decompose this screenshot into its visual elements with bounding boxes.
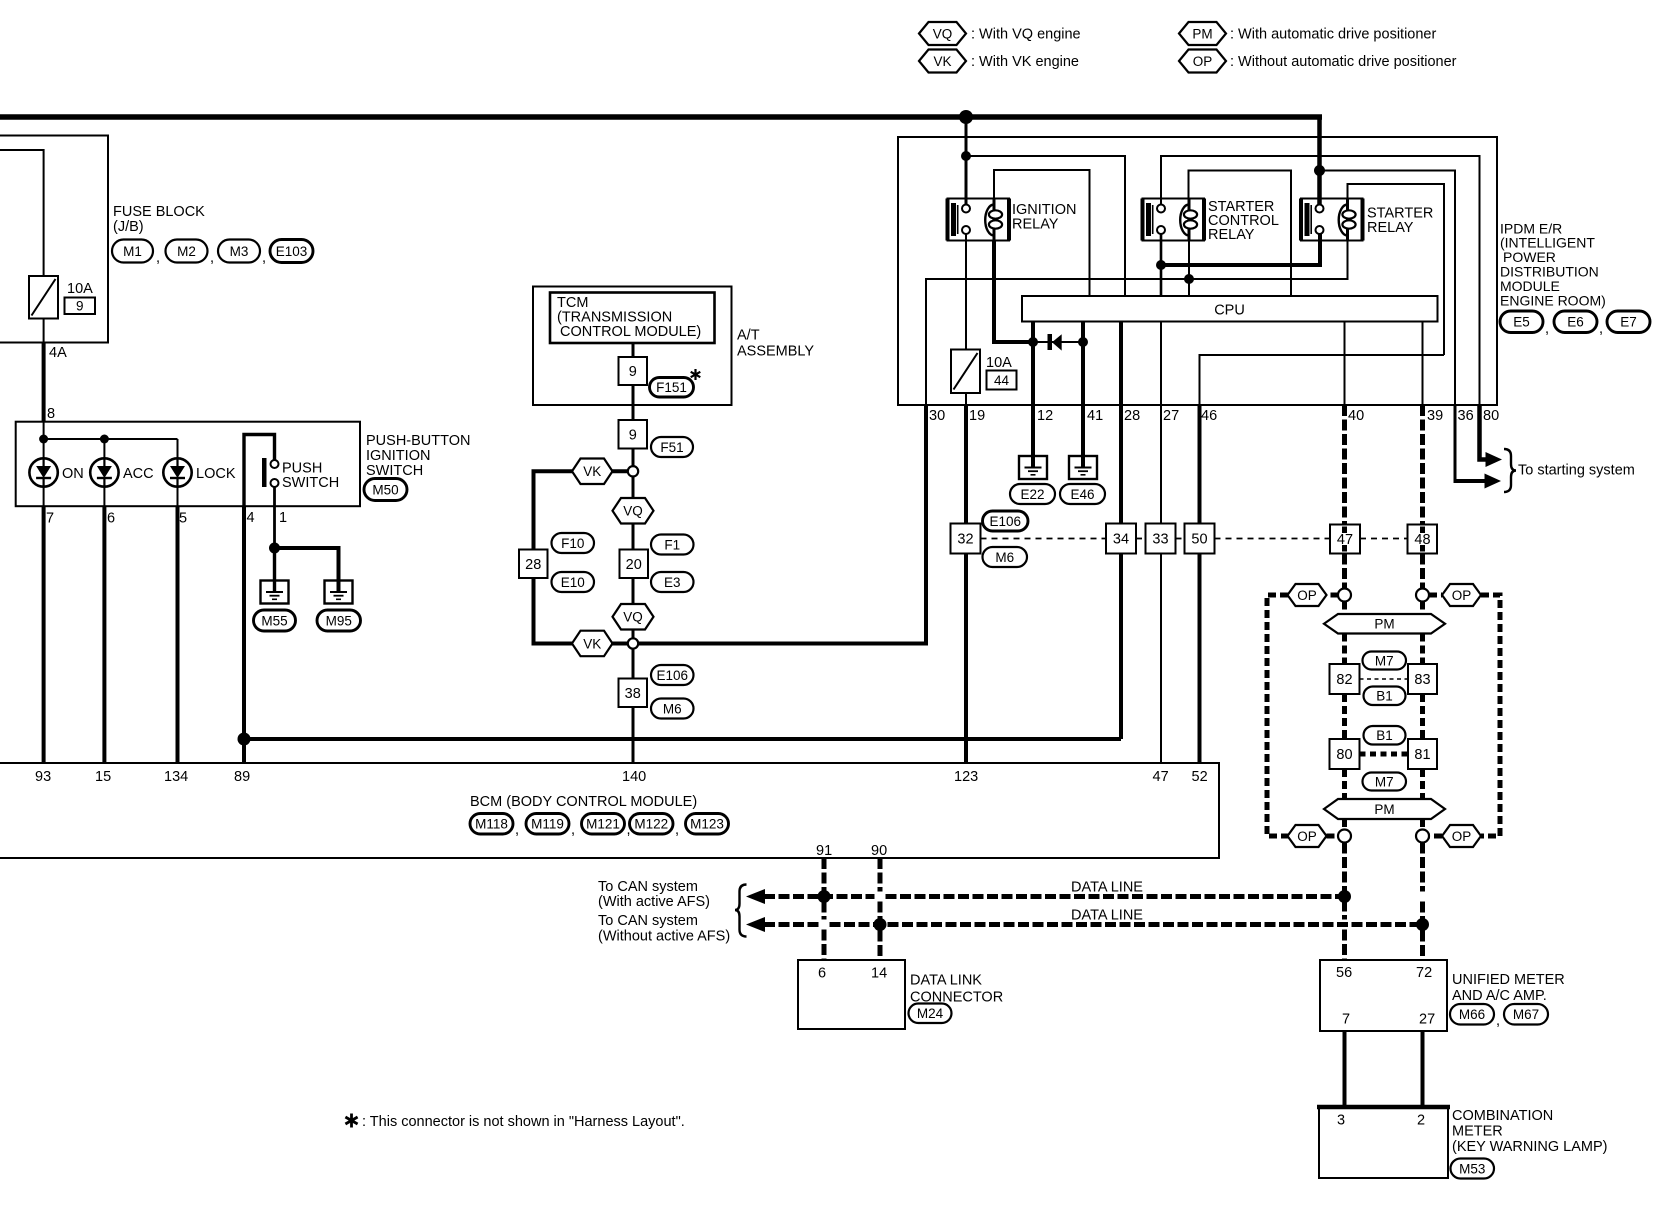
wire fuse to block edge — [43, 319, 45, 343]
svg-text:M122: M122 — [634, 817, 668, 832]
flag OP bottom-left — [1288, 825, 1327, 847]
wire pin7 to BCM 93 — [42, 506, 46, 763]
svg-text:: With VK engine: : With VK engine — [971, 54, 1079, 70]
svg-text:,: , — [571, 822, 575, 838]
svg-text:52: 52 — [1192, 769, 1208, 785]
unified meter box — [1320, 960, 1447, 1031]
svg-text:1: 1 — [279, 510, 287, 526]
flag VQ lower — [613, 604, 654, 630]
wire to VK junction — [632, 449, 635, 467]
connector F1 — [651, 535, 694, 555]
svg-text:15: 15 — [95, 769, 111, 785]
CAN wire BCM 91 down — [822, 858, 827, 920]
connector M121 — [582, 814, 625, 835]
pin box 81 — [1408, 739, 1437, 769]
svg-text:(J/B): (J/B) — [113, 219, 144, 235]
svg-text:82: 82 — [1336, 672, 1352, 688]
wire pin 41 to ground E46 — [1081, 405, 1085, 468]
legend flag OP — [1179, 50, 1226, 73]
svg-text:4A: 4A — [49, 345, 67, 361]
svg-text:44: 44 — [994, 373, 1010, 388]
CAN wire box48 to OP junction — [1420, 554, 1425, 589]
wire junction down to pin 38 — [632, 649, 635, 679]
wire bus to ignition relay contact — [965, 117, 968, 206]
svg-text:SWITCH: SWITCH — [366, 463, 423, 479]
svg-text:FUSE BLOCK: FUSE BLOCK — [113, 204, 205, 220]
ignition relay frame — [994, 170, 1090, 296]
CAN wire box47 to OP junction — [1342, 554, 1347, 589]
svg-text:OP: OP — [1297, 829, 1317, 844]
svg-text:PM: PM — [1374, 617, 1394, 632]
connector M55 — [254, 610, 296, 631]
svg-text:89: 89 — [234, 769, 250, 785]
svg-text:M6: M6 — [995, 550, 1014, 565]
connector M66 — [1450, 1004, 1494, 1025]
inline dashed link 47-48 — [1360, 538, 1407, 540]
connector M53 — [1451, 1159, 1495, 1179]
svg-text:M7: M7 — [1375, 774, 1394, 789]
inline dashed link 32-34 — [981, 538, 1107, 540]
svg-text:80: 80 — [1336, 747, 1352, 763]
asterisk on F151 — [694, 369, 696, 380]
svg-text:8: 8 — [47, 406, 55, 422]
svg-text:(Without active AFS): (Without active AFS) — [598, 929, 730, 945]
connector E5 — [1500, 311, 1543, 333]
svg-text:ENGINE ROOM): ENGINE ROOM) — [1500, 293, 1606, 309]
junction circle OP top-left — [1338, 589, 1351, 602]
CPU box — [1022, 296, 1438, 322]
flag PM top — [1324, 614, 1445, 634]
svg-text:IGNITION: IGNITION — [366, 448, 430, 464]
wire starter control coil to CPU — [1188, 235, 1190, 297]
connector E106 — [983, 511, 1029, 531]
CAN wire BCM 90 down — [878, 858, 883, 892]
svg-text:E106: E106 — [656, 668, 688, 683]
data link connector box — [798, 960, 905, 1029]
svg-text:28: 28 — [525, 557, 541, 573]
svg-text:M53: M53 — [1459, 1161, 1485, 1176]
wire starter control contact to pin 80 line — [1161, 156, 1480, 405]
svg-text:M24: M24 — [917, 1006, 944, 1021]
wire 4A fuse block to switch — [42, 343, 46, 422]
wire UM 7 to meter 3 — [1343, 1031, 1347, 1107]
flag OP top-right — [1442, 584, 1481, 606]
svg-text:RELAY: RELAY — [1208, 227, 1255, 243]
wire into LOCK lamp — [177, 439, 179, 458]
fuse block (J/B) box — [0, 136, 108, 343]
svg-text:56: 56 — [1336, 965, 1352, 981]
svg-text:E5: E5 — [1513, 315, 1530, 330]
svg-text:BCM (BODY CONTROL MODULE): BCM (BODY CONTROL MODULE) — [470, 794, 697, 810]
CAN left to meter — [1342, 843, 1347, 920]
svg-text:E103: E103 — [276, 244, 308, 259]
inline connector box 32 — [951, 524, 981, 554]
wire to ground M95 — [275, 548, 339, 592]
svg-text:CPU: CPU — [1214, 303, 1245, 319]
svg-text:M66: M66 — [1459, 1007, 1485, 1022]
connector M50 — [364, 479, 407, 501]
svg-text:M1: M1 — [123, 244, 142, 259]
arrow to starting system (36) — [1485, 474, 1502, 489]
svg-text:7: 7 — [1342, 1012, 1350, 1028]
svg-text:M50: M50 — [372, 482, 398, 497]
inline dashed link 50-47 — [1215, 538, 1331, 540]
svg-text:F1: F1 — [664, 537, 680, 552]
svg-text:M123: M123 — [690, 817, 724, 832]
svg-text:M55: M55 — [261, 613, 287, 628]
footnote asterisk — [350, 1114, 353, 1128]
connector M3 — [218, 240, 260, 263]
svg-text:134: 134 — [164, 769, 188, 785]
OP bypass right — [1429, 593, 1442, 598]
svg-text:DATA LINE: DATA LINE — [1071, 880, 1143, 896]
svg-text:F51: F51 — [660, 440, 683, 455]
svg-text:VK: VK — [583, 636, 601, 651]
wire push switch to pin 1 — [273, 487, 276, 548]
wire pin 19 to BCM 123 — [964, 405, 968, 763]
arrow CAN line 2 — [746, 917, 765, 932]
CAN wire pin 39 down — [1420, 405, 1425, 525]
svg-text:4: 4 — [247, 510, 255, 526]
connector M6 (TCM) — [651, 699, 694, 719]
ground M55 — [261, 581, 289, 604]
flag VK upper — [572, 459, 613, 485]
svg-text:19: 19 — [969, 408, 985, 424]
svg-text:UNIFIED METER: UNIFIED METER — [1452, 972, 1565, 988]
svg-text:COMBINATION: COMBINATION — [1452, 1108, 1553, 1124]
inline connector box 33 — [1146, 524, 1176, 554]
svg-text:B1: B1 — [1376, 689, 1393, 704]
wire starter control contact out — [1160, 234, 1163, 297]
junction dot ACC branch — [100, 435, 109, 444]
svg-text:E6: E6 — [1567, 315, 1584, 330]
wire CPU to pin 40 — [1344, 322, 1346, 406]
svg-text:(With active AFS): (With active AFS) — [598, 894, 710, 910]
ground M95 — [325, 581, 353, 604]
wire power bus drop to starter relay — [1317, 115, 1322, 205]
ground E46 — [1069, 456, 1097, 479]
svg-text:M6: M6 — [663, 701, 682, 716]
junction dot data line 2 / CAN right — [1416, 918, 1429, 931]
svg-text:ON: ON — [62, 466, 84, 482]
wire LOCK lamp to pin 5 — [177, 487, 179, 507]
junction circle upper — [628, 466, 638, 476]
svg-text:28: 28 — [1124, 408, 1140, 424]
TCM box — [550, 293, 715, 344]
svg-text:41: 41 — [1087, 408, 1103, 424]
wire relay supply to CPU — [966, 156, 1125, 296]
connector E22 — [1010, 484, 1055, 504]
svg-text:To CAN system: To CAN system — [598, 913, 698, 929]
inline connector box 34 — [1106, 524, 1136, 554]
svg-text:E46: E46 — [1070, 487, 1094, 502]
connector M6 — [983, 547, 1028, 567]
legend flag PM — [1179, 22, 1226, 45]
svg-text:46: 46 — [1201, 408, 1217, 424]
svg-text:91: 91 — [816, 843, 832, 859]
connector M122 — [630, 814, 674, 835]
wire VK bypass loop — [534, 471, 574, 643]
svg-text:12: 12 — [1037, 408, 1053, 424]
wire pin 80 to starting system — [1480, 405, 1487, 460]
svg-text:123: 123 — [954, 769, 978, 785]
junction dot diode right — [1078, 337, 1088, 347]
inline dashed link 33-50 — [1176, 538, 1185, 540]
svg-text:140: 140 — [622, 769, 646, 785]
svg-text:LOCK: LOCK — [196, 466, 236, 482]
svg-text:PM: PM — [1192, 26, 1212, 41]
wire VQ lower to junction — [632, 630, 635, 639]
svg-text:OP: OP — [1297, 588, 1317, 603]
wire pin 12 to ground E22 — [1031, 405, 1035, 468]
svg-text:E22: E22 — [1020, 487, 1044, 502]
inline dashed link 34-33 — [1136, 538, 1146, 540]
svg-text:OP: OP — [1193, 54, 1213, 69]
arrow CAN line 1 — [746, 889, 765, 904]
junction dot data line 2 / pin 90 — [874, 918, 887, 931]
svg-text:,: , — [1599, 321, 1603, 337]
svg-text:VK: VK — [933, 54, 951, 69]
CAN left through PM section — [1342, 602, 1347, 615]
pin box 80 — [1330, 739, 1360, 769]
wire pin 46 to BCM 52 — [1198, 405, 1202, 763]
svg-text:27: 27 — [1419, 1012, 1435, 1028]
CAN right through PM section — [1420, 602, 1425, 615]
connector E10 — [552, 572, 595, 592]
flag VQ upper — [613, 498, 654, 524]
wire ignition coil to diode node — [994, 241, 1033, 343]
CAN data line 2 — [764, 922, 819, 927]
svg-text:3: 3 — [1337, 1113, 1345, 1129]
svg-text:B1: B1 — [1376, 728, 1393, 743]
wire pin6 to BCM 15 — [102, 506, 106, 763]
svg-text:RELAY: RELAY — [1367, 220, 1414, 236]
starter relay frame — [1348, 184, 1445, 355]
connector B1 upper — [1364, 687, 1406, 706]
svg-text:30: 30 — [929, 408, 945, 424]
dashed link 82-83 — [1360, 678, 1409, 680]
svg-text:27: 27 — [1163, 408, 1179, 424]
wire TCM pin 9 — [632, 343, 635, 357]
wire to ground M55 — [273, 548, 276, 592]
wire pin 46 to starter relay frame — [1200, 355, 1445, 405]
svg-text:DATA LINE: DATA LINE — [1071, 908, 1143, 924]
legend flag VK — [919, 50, 966, 73]
svg-text:M2: M2 — [177, 244, 196, 259]
svg-text:OP: OP — [1452, 588, 1472, 603]
connector E7 — [1607, 311, 1650, 333]
svg-text:: Without automatic drive posi: : Without automatic drive positioner — [1230, 54, 1457, 70]
svg-text:METER: METER — [1452, 1124, 1503, 1140]
CAN right to meter — [1420, 843, 1425, 892]
wire lamp bus inside switch — [44, 438, 178, 440]
wire VK lower stub — [611, 642, 629, 646]
svg-text:E3: E3 — [664, 575, 681, 590]
wire main power bus — [0, 114, 1322, 120]
A/T assembly box — [533, 287, 732, 406]
svg-text:81: 81 — [1414, 747, 1430, 763]
starter control relay — [1143, 199, 1205, 241]
wire pin20 to VQ lower — [632, 578, 635, 604]
svg-text:34: 34 — [1113, 532, 1129, 548]
junction dot contact link — [1156, 260, 1166, 270]
svg-text:7: 7 — [46, 511, 54, 527]
svg-text:M3: M3 — [230, 244, 249, 259]
wire pin 27 to BCM 47 — [1160, 405, 1162, 763]
inline connector box 48 — [1408, 525, 1438, 554]
starter control relay frame — [1189, 171, 1292, 297]
flag PM bottom — [1324, 799, 1445, 819]
svg-text:To starting system: To starting system — [1518, 463, 1635, 479]
connector E106 (TCM) — [651, 665, 694, 685]
svg-text:39: 39 — [1427, 408, 1443, 424]
connector E103 — [270, 240, 313, 263]
wire ON lamp to pin 7 — [43, 487, 45, 507]
svg-text:,: , — [156, 250, 160, 266]
svg-text:VK: VK — [583, 464, 601, 479]
wire VK stub — [611, 469, 629, 473]
svg-text:20: 20 — [626, 557, 642, 573]
fuse 10A No.44 — [951, 350, 980, 394]
svg-text:M118: M118 — [475, 817, 508, 832]
svg-text:9: 9 — [629, 427, 637, 443]
connector M123 — [686, 814, 729, 835]
connector E46 — [1060, 484, 1105, 504]
connector M67 — [1504, 1004, 1548, 1025]
IPDM E/R box — [898, 137, 1497, 405]
junction circle OP top-right — [1416, 589, 1429, 602]
pin box 9 (F151) — [619, 357, 648, 385]
connector M118 — [470, 814, 513, 835]
svg-text:ASSEMBLY: ASSEMBLY — [737, 344, 814, 360]
fuse 10A No.9 — [29, 276, 58, 319]
connector M95 — [317, 610, 361, 631]
svg-text:,: , — [1496, 1013, 1500, 1029]
wire CPU to pin 27 — [1160, 322, 1162, 406]
wire VQ to pin 20 — [632, 524, 635, 550]
svg-text:A/T: A/T — [737, 328, 760, 344]
svg-text:9: 9 — [629, 364, 637, 380]
wire into ON lamp — [43, 422, 45, 459]
connector E3 — [651, 572, 694, 592]
wire supply to pin 36 — [1320, 171, 1456, 406]
svg-text:VQ: VQ — [623, 610, 643, 625]
wire pin 4 to push switch — [244, 435, 275, 507]
connector M24 — [909, 1004, 952, 1024]
svg-text:83: 83 — [1414, 672, 1430, 688]
wire CPU to pin 41 — [1081, 322, 1085, 406]
svg-text:: With automatic drive positio: : With automatic drive positioner — [1230, 27, 1436, 43]
pin box 20 — [620, 550, 649, 579]
CAN data line 1 — [764, 894, 875, 899]
svg-text:VQ: VQ — [623, 504, 643, 519]
junction circle OP bottom-left — [1338, 830, 1351, 843]
svg-text:,: , — [675, 822, 679, 838]
wire ACC lamp to pin 6 — [103, 487, 105, 507]
wire pin5 to BCM 134 — [176, 506, 180, 763]
indicator ON — [29, 458, 57, 486]
svg-text:2: 2 — [1417, 1113, 1425, 1129]
dotted link 80-81 — [1360, 752, 1409, 757]
junction dot data line 1 / pin 91 — [818, 890, 831, 903]
flag OP bottom-right — [1442, 825, 1481, 847]
junction dot on power bus — [959, 110, 973, 124]
svg-text:5: 5 — [179, 511, 187, 527]
svg-text:OP: OP — [1452, 829, 1472, 844]
pin box 38 — [619, 679, 648, 708]
svg-text:F151: F151 — [656, 380, 687, 395]
svg-text:47: 47 — [1337, 532, 1353, 548]
diode line — [1033, 341, 1083, 343]
flag OP top-left — [1288, 584, 1327, 606]
connector M1 — [112, 240, 153, 263]
svg-text:PUSH-BUTTON: PUSH-BUTTON — [366, 433, 470, 449]
connector M119 — [526, 814, 569, 835]
svg-text:,: , — [1545, 321, 1549, 337]
combination meter box — [1319, 1107, 1448, 1178]
connector F151 — [650, 378, 694, 398]
svg-text:E7: E7 — [1620, 315, 1637, 330]
pin box 28 — [519, 550, 548, 579]
junction circle lower — [628, 638, 638, 648]
wire CPU to pin 12 — [1031, 322, 1035, 406]
svg-text:E10: E10 — [561, 575, 585, 590]
svg-text:6: 6 — [818, 966, 826, 982]
svg-text:M121: M121 — [586, 817, 620, 832]
svg-text:33: 33 — [1152, 532, 1168, 548]
connector B1 lower — [1364, 726, 1406, 745]
wire into ACC lamp — [103, 439, 105, 458]
svg-text:M67: M67 — [1513, 1007, 1539, 1022]
junction dot pin4/crosslink — [238, 733, 251, 746]
svg-text:SWITCH: SWITCH — [282, 475, 339, 491]
pin box 9 (F51) — [619, 420, 648, 449]
connector M2 — [166, 240, 208, 263]
svg-text:38: 38 — [625, 686, 641, 702]
diode — [1048, 334, 1053, 350]
brace CAN system — [735, 885, 747, 937]
wire CPU to pin 28 — [1119, 322, 1123, 406]
OP bypass left — [1327, 593, 1339, 598]
junction dot coil feed — [1184, 274, 1194, 284]
indicator LOCK — [163, 458, 191, 486]
svg-text:6: 6 — [107, 511, 115, 527]
BCM box — [0, 763, 1219, 858]
push-button ignition switch box M50 — [16, 422, 360, 507]
wire pin 30 coil feed line — [926, 235, 1348, 406]
svg-text:36: 36 — [1458, 408, 1474, 424]
junction dot starter relay feed — [1314, 165, 1325, 176]
wire UM 27 to meter 2 — [1421, 1031, 1425, 1107]
svg-text:93: 93 — [35, 769, 51, 785]
svg-text:50: 50 — [1191, 532, 1207, 548]
wire fuse 44 to pin 19 — [965, 393, 967, 405]
wire to VQ flag — [632, 477, 635, 499]
flag VK lower — [572, 631, 613, 657]
junction dot data line 1 / CAN left — [1338, 890, 1351, 903]
svg-text:M7: M7 — [1375, 653, 1394, 668]
indicator ACC — [90, 458, 118, 486]
svg-text:F10: F10 — [561, 536, 584, 551]
svg-text:80: 80 — [1483, 408, 1499, 424]
svg-text:40: 40 — [1348, 408, 1364, 424]
connector M7 lower — [1363, 773, 1407, 791]
junction dot pin1 ground split — [269, 543, 280, 554]
svg-text:To CAN system: To CAN system — [598, 879, 698, 895]
wire CPU to pin 39 — [1422, 322, 1424, 406]
pin box 82 — [1330, 664, 1360, 694]
ignition relay — [948, 199, 1010, 241]
